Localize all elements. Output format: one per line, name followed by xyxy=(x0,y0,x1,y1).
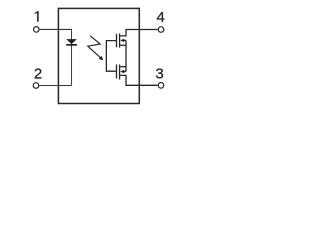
LED D1 xyxy=(66,39,77,46)
svg-text:2: 2 xyxy=(34,65,42,82)
light emission arrow xyxy=(88,36,101,59)
wire LED branch vertical xyxy=(71,29,73,86)
transistor Q1 (top MOSFET) gate bar xyxy=(116,34,118,47)
light arrow head xyxy=(99,56,104,61)
pin 2 terminal xyxy=(33,83,39,89)
wire common source rail xyxy=(125,40,127,71)
transistor Q1 channel bar xyxy=(119,34,121,48)
package outline xyxy=(58,8,139,103)
wire pin2 to LED cathode xyxy=(39,85,71,87)
pin label 1 xyxy=(35,11,39,21)
wire gate bracket xyxy=(106,41,116,72)
wire drain Q2 to pin3 xyxy=(120,75,157,85)
transistor Q2 (bottom MOSFET) gate bar xyxy=(116,64,118,78)
wire body Q2 xyxy=(122,71,127,73)
svg-text:3: 3 xyxy=(155,65,163,82)
pin 4 terminal xyxy=(158,27,164,33)
pin 3 terminal xyxy=(158,83,164,89)
svg-text:4: 4 xyxy=(157,9,165,26)
wire pin1 to LED anode xyxy=(40,28,72,30)
body arrow Q1 xyxy=(120,39,124,42)
wire drain Q1 to pin4 xyxy=(120,30,157,36)
wire source Q2 xyxy=(120,66,126,68)
pin 1 terminal xyxy=(34,27,40,33)
body arrow Q2 xyxy=(120,70,124,73)
transistor Q2 channel bar xyxy=(119,65,121,80)
wire source Q1 xyxy=(120,44,126,46)
wire body Q1 xyxy=(122,39,127,41)
